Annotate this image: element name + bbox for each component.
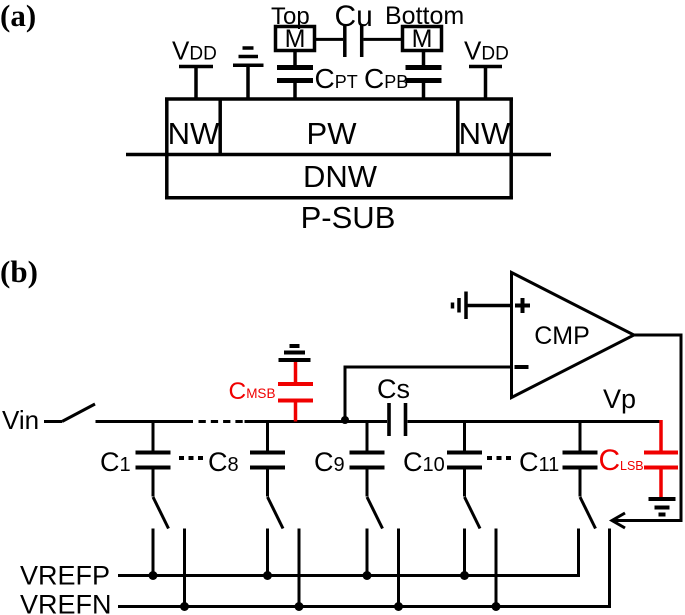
svg-text:DNW: DNW — [303, 159, 378, 194]
svg-text:VREFN: VREFN — [20, 590, 112, 615]
switch under C9 — [367, 497, 399, 607]
svg-text:C8: C8 — [208, 447, 239, 477]
svg-text:LSB: LSB — [620, 459, 644, 473]
junction dots on VREFP — [149, 571, 470, 580]
well structure box — [126, 98, 551, 198]
junction dots on VREFN — [180, 602, 501, 611]
svg-text:C1: C1 — [100, 447, 131, 477]
svg-text:NW: NW — [168, 116, 220, 151]
metal plate M2 (Bottom) — [403, 25, 442, 53]
switch under C8 — [268, 497, 300, 607]
node dot (CMP minus tap) — [341, 416, 349, 424]
svg-text:VDD: VDD — [172, 36, 217, 66]
capacitor CMSB (red) — [278, 361, 313, 422]
plus input mark — [515, 298, 530, 313]
wire top rail dashed segment — [199, 420, 243, 423]
svg-text:Cu: Cu — [335, 0, 373, 33]
substrate line — [126, 153, 551, 157]
dots between C10 and C11 — [487, 456, 513, 460]
VDD supply right — [469, 67, 502, 101]
svg-text:(b): (b) — [0, 254, 38, 289]
left edge — [165, 98, 169, 198]
svg-text:Vin: Vin — [2, 405, 39, 435]
svg-text:C9: C9 — [314, 447, 345, 477]
svg-text:CPB: CPB — [364, 63, 408, 94]
VREFP rail — [118, 529, 579, 576]
svg-text:(a): (a) — [0, 0, 36, 33]
svg-text:M: M — [285, 25, 306, 53]
minus input mark — [515, 365, 529, 369]
capacitor CLSB (red) — [644, 420, 678, 497]
wire top rail mid segment — [245, 420, 388, 423]
ground CMSB — [279, 346, 311, 360]
ground CLSB — [649, 499, 676, 515]
capacitor CPB — [406, 51, 442, 101]
svg-text:C: C — [599, 444, 621, 477]
svg-text:C11: C11 — [519, 447, 559, 477]
capacitor C1 — [136, 422, 171, 497]
svg-text:M: M — [412, 25, 433, 53]
capacitor C8 — [250, 422, 285, 497]
svg-text:VDD: VDD — [464, 36, 509, 66]
switch under C10 — [465, 497, 497, 607]
svg-text:VREFP: VREFP — [20, 561, 110, 591]
svg-text:Vp: Vp — [603, 384, 636, 414]
metal plate M1 (Top) — [276, 25, 315, 53]
wire top rail left segment — [96, 420, 194, 423]
capacitor Cs (series bridge) — [389, 403, 406, 436]
top edge — [165, 97, 513, 101]
wire top rail right segment — [408, 420, 662, 423]
svg-text:CPT: CPT — [315, 63, 358, 94]
capacitor C10 — [447, 422, 482, 497]
svg-text:MSB: MSB — [246, 386, 275, 401]
op-amp CMP — [512, 273, 635, 398]
switch under C1 — [153, 497, 185, 607]
svg-text:C10: C10 — [403, 447, 445, 477]
svg-text:PW: PW — [307, 116, 358, 151]
ground CMP plus input (sideways) — [453, 292, 511, 320]
DNW bottom edge — [165, 196, 513, 200]
ground (a) top — [233, 48, 264, 100]
switch S_in wire — [44, 420, 62, 423]
right edge — [509, 98, 513, 198]
capacitor Cu (between M plates) — [315, 24, 403, 57]
capacitor C11 — [563, 422, 598, 497]
svg-text:Cs: Cs — [377, 374, 410, 404]
svg-text:CMP: CMP — [534, 322, 590, 350]
svg-text:C: C — [229, 378, 247, 405]
NW right inner wall — [456, 99, 460, 155]
arrowhead on output — [612, 513, 625, 528]
wire CMP output — [613, 335, 681, 521]
switch under C11 — [580, 497, 596, 529]
dots between C1 and C8 — [179, 456, 205, 460]
svg-text:NW: NW — [459, 116, 511, 151]
wire CMP minus input — [345, 367, 510, 422]
capacitor CPT — [277, 51, 313, 101]
svg-text:P-SUB: P-SUB — [301, 200, 396, 235]
switch S_in blade — [62, 404, 95, 422]
NW left inner wall — [218, 99, 222, 155]
VREFN rail — [118, 529, 610, 607]
VDD supply left — [179, 67, 213, 101]
capacitor C9 — [350, 422, 385, 497]
